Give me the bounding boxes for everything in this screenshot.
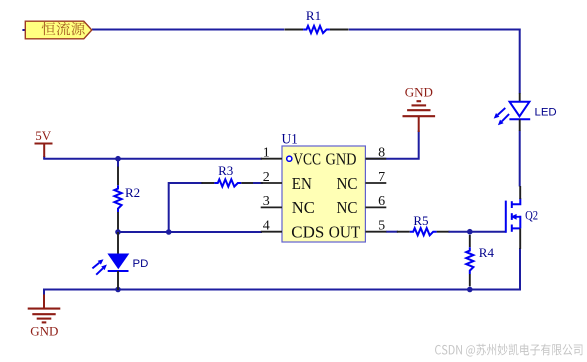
svg-text:NC: NC <box>337 198 358 217</box>
svg-text:4: 4 <box>263 219 270 234</box>
svg-text:GND: GND <box>405 85 433 100</box>
svg-text:1: 1 <box>263 146 270 161</box>
svg-text:3: 3 <box>263 194 270 209</box>
svg-text:7: 7 <box>378 170 385 185</box>
svg-text:U1: U1 <box>282 131 298 147</box>
svg-text:R3: R3 <box>218 163 233 178</box>
svg-text:EN: EN <box>292 174 312 193</box>
svg-text:VCC: VCC <box>293 150 321 169</box>
svg-text:R1: R1 <box>306 8 321 23</box>
svg-text:R5: R5 <box>413 213 428 228</box>
svg-text:2: 2 <box>263 170 270 185</box>
svg-text:LED: LED <box>535 107 557 119</box>
svg-text:GND: GND <box>326 150 357 169</box>
svg-text:8: 8 <box>378 146 385 161</box>
svg-text:5V: 5V <box>35 128 52 143</box>
svg-text:R2: R2 <box>125 185 140 200</box>
svg-text:NC: NC <box>337 174 358 193</box>
svg-text:OUT: OUT <box>329 223 361 242</box>
svg-text:6: 6 <box>378 194 385 209</box>
svg-text:GND: GND <box>30 323 58 338</box>
svg-text:NC: NC <box>292 198 315 217</box>
svg-text:CDS: CDS <box>291 223 324 242</box>
svg-text:Q2: Q2 <box>525 209 538 223</box>
svg-text:R4: R4 <box>479 245 495 260</box>
svg-text:PD: PD <box>133 258 149 270</box>
svg-text:5: 5 <box>378 219 385 234</box>
